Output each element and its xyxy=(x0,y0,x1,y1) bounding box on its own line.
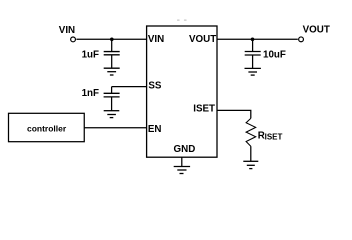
svg-text:ISET: ISET xyxy=(265,132,283,141)
svg-text:VOUT: VOUT xyxy=(303,25,330,36)
svg-text:VIN: VIN xyxy=(148,34,164,45)
svg-text:1nF: 1nF xyxy=(82,88,99,99)
svg-text:VOUT: VOUT xyxy=(189,34,216,45)
svg-text:ISET: ISET xyxy=(193,104,215,115)
svg-text:controller: controller xyxy=(27,123,67,133)
svg-text:EN: EN xyxy=(148,124,162,135)
svg-text:GND: GND xyxy=(174,144,196,155)
svg-text:1uF: 1uF xyxy=(82,50,99,61)
svg-text:SS: SS xyxy=(148,81,162,92)
svg-text:10uF: 10uF xyxy=(263,50,286,61)
svg-text:VIN: VIN xyxy=(59,25,75,36)
